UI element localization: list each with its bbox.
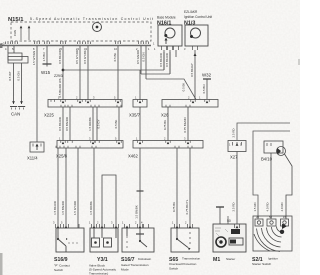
svg-text:X35/7: X35/7 — [129, 113, 141, 118]
svg-text:0.5 BK/RD: 0.5 BK/RD — [159, 53, 163, 67]
svg-text:Switch: Switch — [169, 266, 178, 270]
svg-text:1.5 RD: 1.5 RD — [253, 203, 257, 212]
svg-text:0.5 GY: 0.5 GY — [97, 119, 101, 128]
svg-text:0.5 BK: 0.5 BK — [113, 53, 117, 62]
svg-text:N15/1: N15/1 — [8, 17, 24, 23]
svg-text:S16/9: S16/9 — [54, 257, 68, 263]
svg-text:0.5 WT: 0.5 WT — [8, 71, 12, 81]
svg-text:1.5 BN: 1.5 BN — [42, 53, 46, 62]
svg-text:B4/10: B4/10 — [261, 157, 273, 162]
svg-text:2.5 RD: 2.5 RD — [232, 129, 236, 138]
svg-text:Kickdown: Kickdown — [138, 257, 152, 261]
svg-text:0.5 BK/RD WS: 0.5 BK/RD WS — [58, 78, 62, 97]
svg-text:1.5 RD/BK: 1.5 RD/BK — [88, 117, 92, 131]
svg-text:4.0 RD: 4.0 RD — [280, 203, 284, 212]
svg-text:EZL/AKR: EZL/AKR — [184, 10, 198, 14]
svg-text:0.5 BK: 0.5 BK — [182, 83, 186, 92]
svg-text:1.5 BK/RD: 1.5 BK/RD — [53, 201, 57, 215]
svg-text:0.5 GN/RD: 0.5 GN/RD — [136, 50, 140, 64]
svg-text:CAN: CAN — [13, 30, 17, 36]
svg-text:50: 50 — [227, 219, 231, 223]
svg-text:0.5 GN: 0.5 GN — [17, 71, 21, 80]
svg-text:0.75 BK: 0.75 BK — [163, 120, 167, 130]
svg-text:1.5 BN/RD: 1.5 BN/RD — [61, 201, 65, 215]
svg-text:CAN: CAN — [11, 112, 20, 117]
svg-text:X225: X225 — [44, 113, 54, 118]
svg-text:1.5 WT/GN: 1.5 WT/GN — [32, 51, 36, 65]
svg-text:0.5 BK/GY: 0.5 BK/GY — [190, 63, 194, 77]
svg-text:0.5 BK/RD: 0.5 BK/RD — [58, 50, 62, 64]
svg-text:1.5 BN/BK: 1.5 BN/BK — [135, 205, 139, 219]
svg-text:X27: X27 — [230, 155, 238, 160]
svg-text:0.5 GN: 0.5 GN — [142, 52, 146, 61]
svg-text:W32: W32 — [202, 73, 212, 78]
svg-text:X462: X462 — [128, 154, 138, 159]
svg-text:0.5 BK/RD: 0.5 BK/RD — [58, 117, 62, 131]
svg-text:4.0 RD: 4.0 RD — [266, 203, 270, 212]
svg-text:0.75 BK: 0.75 BK — [172, 202, 176, 212]
svg-text:W15: W15 — [41, 70, 51, 75]
svg-text:X26: X26 — [161, 113, 169, 118]
svg-text:Switch: Switch — [54, 268, 63, 272]
svg-text:0.5 BN/RD: 0.5 BN/RD — [65, 117, 69, 131]
svg-text:0.75 BK/RD: 0.75 BK/RD — [183, 117, 187, 132]
svg-text:0.75 BK/YL: 0.75 BK/YL — [185, 199, 189, 214]
svg-text:Mode: Mode — [121, 267, 129, 271]
svg-text:Transmission): Transmission) — [89, 272, 108, 275]
svg-text:0.5 BK: 0.5 BK — [114, 120, 118, 129]
svg-text:2.5 RD: 2.5 RD — [232, 203, 236, 212]
svg-text:0.5 BN: 0.5 BN — [202, 85, 206, 94]
svg-text:Starter: Starter — [226, 257, 235, 261]
svg-text:Z29/3: Z29/3 — [54, 74, 63, 78]
svg-text:0.5 BK/RD: 0.5 BK/RD — [165, 53, 169, 67]
svg-text:Transmission: Transmission — [182, 257, 201, 261]
svg-text:Ignition Control Unit: Ignition Control Unit — [184, 15, 212, 19]
svg-text:X25/8: X25/8 — [56, 154, 68, 159]
svg-text:1.5 RD/BK: 1.5 RD/BK — [89, 201, 93, 215]
svg-text:0.5 GY/RD: 0.5 GY/RD — [75, 50, 79, 64]
svg-text:N16/1: N16/1 — [157, 21, 171, 27]
svg-text:X11/4: X11/4 — [27, 156, 38, 161]
svg-text:Starter Switch: Starter Switch — [252, 262, 272, 266]
svg-text:Y3/1: Y3/1 — [97, 257, 108, 263]
svg-text:Base Module: Base Module — [157, 16, 176, 20]
svg-text:0.5 GY/BK: 0.5 GY/BK — [83, 50, 87, 64]
svg-text:5-Speed Automatic Transmission: 5-Speed Automatic Transmission Control U… — [30, 17, 154, 21]
svg-text:1.5 GY/RD: 1.5 GY/RD — [73, 201, 77, 215]
svg-text:Overload Protection: Overload Protection — [169, 262, 197, 266]
svg-text:M1: M1 — [213, 257, 220, 263]
svg-text:N1/3: N1/3 — [184, 21, 195, 27]
svg-text:Ignition: Ignition — [268, 257, 278, 261]
